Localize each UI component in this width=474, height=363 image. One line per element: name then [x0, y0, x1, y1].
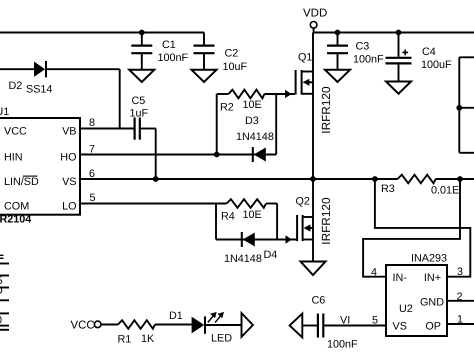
svg-text:1uF: 1uF	[130, 108, 149, 120]
svg-text:IN+: IN+	[424, 272, 441, 284]
capacitor C2	[203, 33, 205, 46]
svg-text:8: 8	[89, 117, 95, 129]
wire R4/D4 left leg	[215, 204, 217, 240]
port VI input	[290, 314, 303, 338]
transistor Q2 IRFR120	[296, 215, 298, 241]
wire R2 right leg	[264, 93, 294, 95]
wire R4/D4 right leg	[276, 204, 278, 240]
wire phase to right edge	[436, 178, 474, 180]
svg-text:D3: D3	[245, 115, 259, 127]
power VDD terminal	[310, 22, 317, 29]
node R3 right sense junction	[457, 176, 463, 182]
capacitor C6	[317, 314, 319, 338]
wire R1 to D1	[155, 324, 192, 326]
wire VB pin 8	[80, 128, 134, 130]
wire C5 to VS	[141, 128, 156, 130]
svg-text:R1: R1	[118, 334, 132, 346]
wire Q1 drain to VDD / source to VS	[312, 33, 314, 180]
resistor R2	[228, 90, 264, 99]
wire VCC to R1	[101, 324, 118, 326]
svg-text:VI: VI	[340, 315, 350, 327]
resistor R4	[227, 199, 267, 208]
svg-text:VB: VB	[62, 126, 76, 138]
svg-text:100nF: 100nF	[327, 339, 358, 351]
wire D1 to port	[206, 324, 242, 326]
ground (C3)	[325, 70, 350, 82]
svg-text:C3: C3	[356, 41, 370, 53]
svg-text:R4: R4	[221, 210, 235, 222]
ground (Q2 source)	[301, 262, 326, 276]
node C3 tap junction	[335, 30, 341, 36]
svg-text:1K: 1K	[141, 333, 155, 345]
op-amp U1 IR2104 box	[0, 118, 80, 215]
diode D3 1N4148	[252, 147, 254, 162]
wire D2 anode from left edge	[0, 68, 34, 70]
wire OP pin 1	[447, 323, 474, 325]
svg-text:R2: R2	[220, 102, 234, 114]
wire R4 right leg	[266, 203, 277, 205]
svg-text:VS: VS	[393, 321, 407, 333]
wire VS pin 6 phase line	[80, 178, 398, 180]
svg-text:Q1: Q1	[298, 52, 312, 64]
svg-text:COM: COM	[4, 201, 29, 213]
svg-text:D4: D4	[264, 249, 278, 261]
wire right connector stub bottom	[459, 152, 474, 154]
svg-text:C1: C1	[162, 39, 176, 51]
node C4 tap junction	[396, 30, 402, 36]
diode D4 1N4148	[241, 232, 243, 247]
node right connector junction	[456, 105, 462, 111]
svg-text:IRFR120: IRFR120	[319, 197, 333, 245]
gate arrow Q1	[285, 90, 292, 98]
svg-text:U2: U2	[399, 303, 413, 315]
svg-text:IR2104: IR2104	[0, 214, 31, 226]
svg-text:Q2: Q2	[296, 196, 310, 208]
node Q1/Q2 phase junction	[310, 176, 316, 182]
svg-text:IRFR120: IRFR120	[319, 86, 333, 134]
svg-text:10E: 10E	[243, 209, 262, 221]
wire right connector stub top	[459, 56, 474, 58]
svg-text:VS: VS	[62, 176, 76, 188]
resistor R1	[118, 320, 155, 329]
svg-text:0: 0	[0, 315, 2, 327]
svg-text:VCC: VCC	[71, 319, 95, 331]
capacitor C3	[337, 33, 339, 46]
svg-text:1N4148: 1N4148	[236, 131, 274, 143]
svg-text:IN-: IN-	[393, 272, 408, 284]
svg-text:HIN: HIN	[4, 152, 23, 164]
plus sign C4	[402, 51, 408, 53]
wire GND pin 2	[447, 300, 474, 302]
wire left edge connector stubs	[0, 263, 9, 265]
capacitor C1	[141, 33, 143, 46]
svg-text:C4: C4	[422, 46, 436, 58]
op-amp U2 INA293 box	[386, 265, 447, 336]
svg-text:0.01E: 0.01E	[431, 185, 459, 197]
svg-text:10uF: 10uF	[223, 61, 248, 73]
svg-text:SS14: SS14	[26, 84, 52, 96]
svg-text:10E: 10E	[243, 99, 262, 111]
svg-text:C5: C5	[132, 95, 146, 107]
LED arrows	[208, 313, 223, 323]
svg-text:LED: LED	[211, 333, 232, 345]
diode D1 LED	[192, 317, 205, 334]
node R2/D3 left junction	[214, 152, 220, 158]
svg-text:D2: D2	[9, 80, 23, 92]
ground (C2)	[192, 70, 217, 82]
svg-text:INA293: INA293	[411, 253, 447, 265]
gate arrow Q2	[286, 235, 293, 243]
capacitor C5	[134, 118, 136, 140]
ground (C4)	[386, 82, 411, 94]
node C1 tap junction	[139, 30, 145, 36]
left edge label fragments	[0, 254, 4, 256]
svg-text:U1: U1	[0, 106, 9, 118]
resistor R3 shunt	[398, 175, 436, 184]
ground (C1)	[129, 70, 154, 82]
wire port to C6	[302, 325, 317, 327]
wire HO pin 7	[80, 154, 276, 156]
svg-text:D: D	[0, 285, 3, 297]
wire R3 left to IN+ (pin3)	[375, 179, 470, 277]
svg-text:1N4148: 1N4148	[224, 253, 262, 265]
svg-text:VCC: VCC	[4, 126, 27, 138]
node C5-VS junction	[153, 176, 159, 182]
svg-text:OP: OP	[425, 321, 441, 333]
wire LO pin 5	[80, 203, 227, 205]
svg-text:100uF: 100uF	[421, 59, 452, 71]
wire Q2 drain/source	[312, 179, 314, 262]
svg-text:VDD: VDD	[303, 8, 327, 20]
transistor Q1 IRFR120	[295, 70, 297, 95]
wire Q2 gate	[277, 239, 296, 241]
svg-text:C6: C6	[312, 295, 326, 307]
node R3 left sense junction	[372, 176, 378, 182]
svg-text:100nF: 100nF	[353, 54, 384, 66]
diode D2 SS14	[34, 62, 45, 77]
wire C6 to VS pin 5	[324, 325, 386, 327]
svg-text:GND: GND	[420, 297, 444, 309]
svg-text:3: 3	[457, 266, 463, 278]
wire R2/D3 right leg	[275, 94, 277, 155]
svg-text:D1: D1	[169, 310, 183, 322]
wire R2 left leg	[216, 94, 218, 155]
svg-text:5: 5	[90, 192, 96, 204]
svg-text:100nF: 100nF	[158, 52, 189, 64]
wire D2 cathode to VB	[47, 68, 120, 70]
svg-text:HO: HO	[60, 152, 76, 164]
capacitor C4 polarized	[398, 33, 400, 57]
svg-text:LIN/SD: LIN/SD	[4, 176, 39, 188]
svg-text:LO: LO	[62, 201, 76, 213]
wire right connector vertical	[458, 57, 460, 153]
svg-text:C2: C2	[225, 48, 239, 60]
wire right connector stub mid	[459, 107, 474, 109]
wire R3 right to IN- (pin4)	[363, 179, 460, 277]
wire VDD top rail (right)	[314, 32, 474, 34]
wire VCC top rail (left)	[0, 32, 204, 34]
port LED output	[242, 313, 253, 337]
svg-text:4: 4	[371, 267, 377, 279]
svg-text:R3: R3	[381, 183, 395, 195]
